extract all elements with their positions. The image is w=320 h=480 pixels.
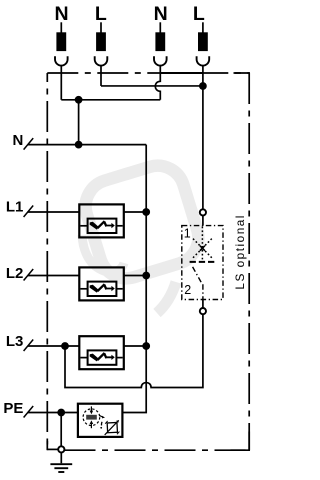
junction dot L1/bus <box>142 208 150 216</box>
terminal T1 clamp <box>55 56 68 65</box>
wire L3 tap down and right with hop over bus <box>65 314 203 387</box>
svg-text:L2: L2 <box>6 265 24 282</box>
wire into top breaker terminal <box>202 300 204 309</box>
svg-text:1: 1 <box>184 227 191 241</box>
svg-text:L: L <box>95 3 107 25</box>
slash at L2 entry <box>24 269 34 281</box>
spark gap arrow bottom <box>90 423 92 428</box>
wire PE row <box>28 412 78 414</box>
breaker center dotted line <box>201 227 203 261</box>
junction dot L3/bus <box>142 342 150 350</box>
svg-text:L3: L3 <box>6 333 24 350</box>
spark gap dashed circle <box>83 409 100 426</box>
spark gap box PE <box>78 404 123 437</box>
SPD varistor box L1 <box>79 204 124 237</box>
junction dot L3 tap <box>61 342 69 350</box>
svg-text:N: N <box>154 3 168 25</box>
top border solid segment between N and L output terminals <box>160 72 203 74</box>
wire N row <box>28 144 147 146</box>
junction dot N row <box>75 141 83 149</box>
svg-text:L1: L1 <box>6 199 24 216</box>
spark gap electrode <box>86 415 97 420</box>
wire from T1 (N) down <box>60 66 62 100</box>
disconnector square symbol <box>104 420 120 435</box>
wire L1 row left <box>28 211 80 213</box>
slash at N entry <box>24 138 34 150</box>
slash at L1 entry <box>24 206 34 218</box>
breaker X contact <box>192 237 203 248</box>
svg-text:PE: PE <box>3 400 23 417</box>
slash at PE entry <box>24 406 34 418</box>
wire from T2 (L) down <box>100 66 102 86</box>
svg-text:L: L <box>193 3 205 25</box>
breaker blade <box>193 267 203 284</box>
terminal T4 pin <box>202 22 204 32</box>
wire N bus top: T1 to T3 <box>61 99 160 101</box>
spark gap arrow top <box>90 406 92 411</box>
wire T2 to T4 (L link) <box>101 85 203 87</box>
svg-text:LS optional: LS optional <box>233 214 247 290</box>
wire L1 row right to bus <box>124 211 146 213</box>
svg-text:N: N <box>13 132 24 149</box>
LS breaker dashed box <box>182 226 223 300</box>
svg-text:N: N <box>54 3 68 25</box>
wire L3 row right to bus <box>124 345 146 347</box>
wire PE dot to ground terminal <box>60 413 62 447</box>
wire L2 row right to bus <box>124 275 146 277</box>
breaker fixed contact bar <box>190 261 215 263</box>
wire from T4 (L) down to switch <box>202 66 204 210</box>
wire from T3 (N) down with hop over L wire <box>155 66 160 100</box>
breaker X center cross <box>200 246 205 251</box>
N drop wire <box>78 100 80 145</box>
breaker terminal circle top <box>200 209 206 215</box>
slash at L3 entry <box>24 340 34 352</box>
terminal T1 pin <box>60 22 62 32</box>
wire top circle to breaker box <box>202 216 204 226</box>
watermark logo (light gray) <box>79 159 205 313</box>
terminal T2 clamp <box>95 56 108 65</box>
spark gap action marks <box>100 416 103 417</box>
ground terminal circle <box>58 446 64 452</box>
ground symbol <box>50 453 72 472</box>
junction dot T4/L link <box>199 82 207 90</box>
SPD varistor box L3 <box>79 336 124 369</box>
breaker terminal circle bottom <box>200 308 206 314</box>
wire L3 row left <box>28 345 80 347</box>
svg-text:2: 2 <box>184 283 191 297</box>
junction dot L2/bus <box>142 272 150 280</box>
terminal T3 pin <box>159 22 161 32</box>
junction dot N bus top <box>75 96 83 104</box>
bus wire down right of boxes to PE output <box>122 145 146 413</box>
junction dot PE <box>57 409 65 417</box>
device outline dashed border <box>47 73 250 450</box>
terminal T2 pin <box>100 22 102 32</box>
terminal T4 clamp <box>197 56 210 65</box>
wire L2 row left <box>28 275 80 277</box>
terminal T3 clamp <box>154 56 167 65</box>
SPD varistor box L2 <box>79 267 124 300</box>
